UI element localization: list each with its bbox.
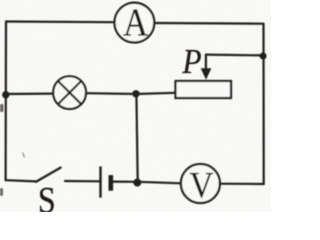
node middle junction — [132, 90, 139, 97]
wire slider to right rail node — [206, 53, 264, 56]
wire top rail left (top-left corner to ammeter) — [6, 20, 115, 23]
battery cell short plate — [109, 175, 114, 191]
lamp — [53, 76, 86, 109]
wire middle vertical (middle node down to battery node) — [136, 94, 137, 182]
switch S lever — [36, 168, 61, 182]
wire bottom-left corner to switch — [6, 180, 36, 181]
wire battery to battery node — [112, 181, 138, 183]
ammeter A — [114, 0, 154, 44]
wire voltmeter to bottom-right corner — [220, 183, 264, 186]
wire left rail (top-left corner down to bottom-left corner) — [4, 22, 7, 181]
wire left rail node to lamp — [6, 92, 53, 95]
node left rail junction — [2, 91, 9, 98]
node battery junction — [133, 179, 141, 187]
voltmeter V — [181, 164, 220, 206]
wire right rail (top-right corner down to bottom-right corner) — [262, 24, 264, 184]
wire middle node to rheostat — [136, 93, 176, 94]
wire switch to battery — [65, 180, 99, 183]
node right rail junction — [260, 53, 267, 60]
rheostat P slider arrow — [202, 55, 211, 79]
wire lamp to middle node — [86, 92, 136, 95]
wire battery node to voltmeter — [138, 182, 181, 184]
battery cell long plate — [99, 166, 101, 197]
wire top rail right (ammeter to top-right corner) — [154, 22, 263, 25]
rheostat P body — [176, 81, 232, 98]
